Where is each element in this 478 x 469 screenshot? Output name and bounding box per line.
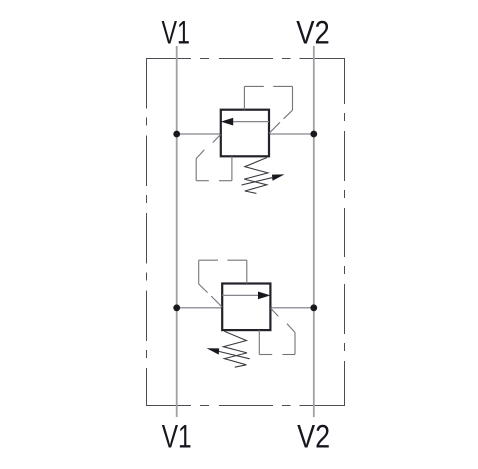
RV1: internal flow path line xyxy=(233,121,269,123)
wire: line V1 (vertical) xyxy=(176,46,178,417)
RV2: pilot line (outlet to cap) xyxy=(211,296,222,307)
RV2: valve body square xyxy=(222,284,270,331)
RV2: internal flow path line xyxy=(222,294,258,296)
RV2: drain line (inlet to spring chamber) xyxy=(270,308,278,316)
RV2: junction dot on V2 xyxy=(310,304,317,311)
RV2: inlet wire (V2 side) xyxy=(270,307,313,309)
RV1: junction dot on V2 xyxy=(310,131,317,138)
enclosure bottom side xyxy=(146,405,345,407)
wire: line V2 (vertical) xyxy=(313,46,315,417)
enclosure right side xyxy=(344,58,346,406)
RV1: pilot line (outlet to cap) xyxy=(269,122,280,133)
RV2: outlet wire xyxy=(177,307,223,309)
RV2: spring xyxy=(223,331,247,367)
RV2: adjustment arrow shaft xyxy=(218,351,250,359)
valve block enclosure (dashed boundary), top side xyxy=(146,58,345,60)
RV1: drain line (inlet to spring chamber) xyxy=(213,134,221,142)
RV2: junction dot on V1 xyxy=(173,304,180,311)
svg-text:V2: V2 xyxy=(296,15,330,51)
svg-text:V1: V1 xyxy=(161,15,190,51)
RV1: inlet wire (V1 side) xyxy=(177,133,221,135)
RV1: internal flow arrowhead xyxy=(221,118,233,126)
RV1: adjustment arrow shaft xyxy=(242,177,274,185)
RV1: outlet wire xyxy=(269,133,314,135)
svg-text:V1: V1 xyxy=(162,418,192,454)
RV1: adjustment arrowhead xyxy=(272,174,285,180)
RV2: internal flow arrowhead xyxy=(258,292,270,300)
RV1: valve body square xyxy=(221,110,269,157)
RV1: spring xyxy=(244,158,268,194)
enclosure left side xyxy=(146,58,148,406)
svg-text:V2: V2 xyxy=(297,418,330,454)
RV2: adjustment arrowhead xyxy=(207,348,220,354)
RV1: junction dot on V1 xyxy=(173,131,180,138)
